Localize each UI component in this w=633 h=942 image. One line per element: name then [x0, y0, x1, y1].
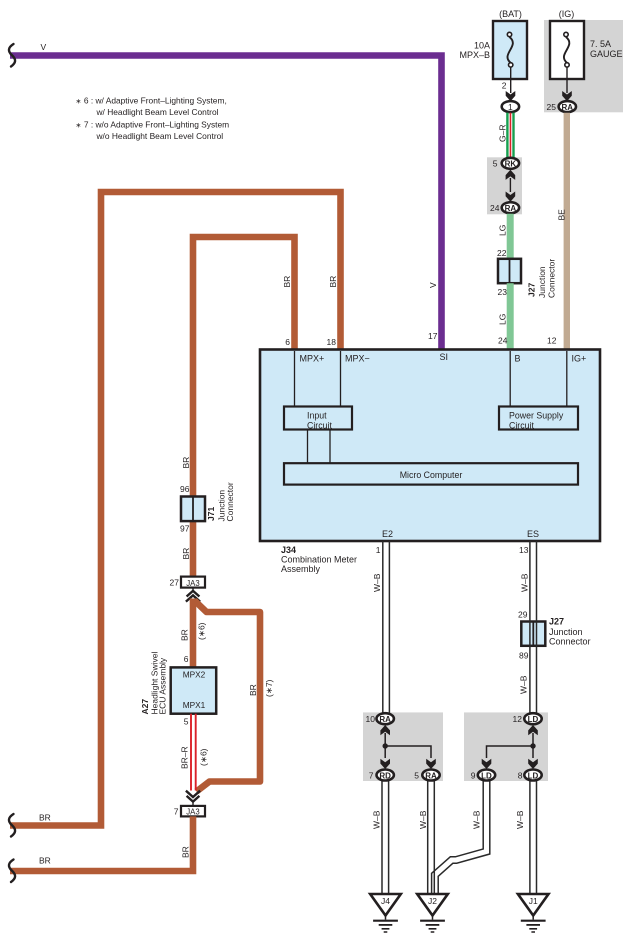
- svg-text:18: 18: [327, 337, 337, 347]
- junction dot left: [383, 743, 388, 748]
- link line arrow to junction dot right: [532, 733, 534, 746]
- svg-text:Input: Input: [307, 411, 327, 421]
- svg-text:ECU Assembly: ECU Assembly: [158, 657, 168, 714]
- wire W-B from LD 9 with jog joining ground J2: [435, 781, 487, 894]
- Micro Computer block: [284, 463, 578, 484]
- svg-text:RA: RA: [505, 204, 517, 213]
- svg-text:27: 27: [170, 578, 180, 588]
- ground J2: [417, 894, 448, 932]
- off-page squiggle BR upper exit: [9, 814, 15, 837]
- svg-text:8: 8: [518, 770, 523, 780]
- svg-text:6: 6: [285, 337, 290, 347]
- svg-text:BE: BE: [557, 209, 567, 221]
- junction dot right: [530, 743, 535, 748]
- connector oval RA pin 5: [422, 770, 439, 781]
- svg-text:12: 12: [513, 714, 523, 724]
- connector oval 1: [502, 101, 519, 112]
- svg-text:RK: RK: [505, 160, 517, 169]
- svg-text:J2: J2: [428, 896, 437, 906]
- internal wire MPX- to Input Circuit: [340, 351, 342, 407]
- svg-text:Junction: Junction: [549, 627, 583, 637]
- svg-text:Connector: Connector: [225, 482, 235, 521]
- svg-text:(BAT): (BAT): [499, 9, 522, 19]
- svg-text:5: 5: [414, 770, 419, 780]
- ground J1: [518, 894, 549, 932]
- internal wire B to Power Supply Circuit: [509, 351, 511, 407]
- connector arrow into RA 25: [562, 91, 572, 101]
- gray panel behind RK/RA connector pair: [487, 157, 522, 214]
- svg-text:10A: 10A: [474, 41, 490, 51]
- line between RK and RA arrows: [509, 178, 511, 192]
- svg-text:LD: LD: [481, 771, 492, 780]
- wire W-B from E2 pin 1 to RA 10: [383, 541, 390, 713]
- svg-text:BR–R: BR–R: [180, 746, 190, 769]
- connector oval RA pin 24: [502, 202, 519, 213]
- svg-text:W–B: W–B: [372, 810, 382, 829]
- svg-text:W–B: W–B: [472, 810, 482, 829]
- svg-text:J34: J34: [281, 545, 296, 555]
- svg-text:22: 22: [497, 248, 507, 258]
- arrow down into LD 9: [482, 759, 492, 769]
- gray panel bottom-right (LD connectors): [464, 712, 548, 781]
- wire W-B from RA 5 to ground J2: [428, 781, 435, 894]
- stub from JA3 27 to chevron: [192, 588, 194, 592]
- gray panel behind IG fuse: [544, 20, 623, 112]
- svg-text:(∗7): (∗7): [264, 679, 274, 697]
- connector oval LD pin 8: [524, 770, 541, 781]
- svg-text:BR: BR: [39, 813, 51, 823]
- off-page squiggle for V wire: [9, 44, 15, 67]
- svg-text:MPX2: MPX2: [183, 669, 206, 679]
- connector oval RK pin 5: [502, 158, 519, 169]
- svg-text:V: V: [41, 42, 47, 52]
- fuse 7.5A GAUGE: [550, 21, 584, 79]
- svg-text:96: 96: [180, 484, 190, 494]
- wire BR from J71 to JA3 pin 27: [190, 521, 197, 577]
- connector JA3 pin 27: [181, 577, 205, 588]
- svg-text:W–B: W–B: [418, 810, 428, 829]
- fuse 10A MPX-B: [493, 21, 527, 79]
- svg-text:Power Supply: Power Supply: [509, 411, 564, 421]
- svg-text:MPX–B: MPX–B: [459, 50, 490, 60]
- junction connector J27 (top): [498, 259, 521, 283]
- gray panel bottom-left (RA/RD/RA connectors): [363, 712, 443, 781]
- svg-text:5: 5: [493, 159, 498, 169]
- svg-text:24: 24: [498, 336, 508, 346]
- internal wire MPX+ to Input Circuit: [294, 351, 296, 407]
- svg-text:Connector: Connector: [547, 259, 557, 298]
- svg-text:Micro Computer: Micro Computer: [400, 470, 463, 480]
- svg-text:W–B: W–B: [520, 573, 530, 592]
- svg-text:Circuit: Circuit: [509, 420, 534, 430]
- svg-text:1: 1: [376, 545, 381, 555]
- svg-text:MPX1: MPX1: [183, 700, 206, 710]
- svg-text:13: 13: [519, 545, 529, 555]
- svg-text:7: 7: [174, 807, 179, 817]
- svg-text:BR: BR: [181, 846, 191, 858]
- svg-text:29: 29: [518, 610, 528, 620]
- double chevron pointing down above JA3 7: [186, 791, 200, 802]
- svg-text:Assembly: Assembly: [281, 564, 321, 574]
- svg-text:Connector: Connector: [549, 637, 591, 647]
- wire BR inner: J71 up and over to MPX+ pin 6: [193, 237, 295, 497]
- svg-text:24: 24: [490, 203, 500, 213]
- svg-text:97: 97: [180, 524, 190, 534]
- svg-text:∗ 6 : w/ Adaptive Front–Lighti: ∗ 6 : w/ Adaptive Front–Lighting System,: [76, 96, 227, 106]
- svg-text:10: 10: [366, 714, 376, 724]
- ECU A27 Headlight Swivel ECU Assembly box: [171, 667, 217, 713]
- connector oval RA pin 10: [377, 713, 394, 724]
- svg-text:Junction: Junction: [537, 266, 547, 298]
- connector oval LD pin 12: [524, 713, 541, 724]
- wire LG from J27 to B pin 24: [507, 283, 514, 350]
- svg-text:(IG): (IG): [559, 9, 575, 19]
- wire W-B from RD 7 to ground J4: [382, 781, 389, 894]
- svg-text:BR: BR: [181, 548, 191, 560]
- svg-text:BR: BR: [181, 457, 191, 469]
- svg-text:GAUGE: GAUGE: [590, 49, 623, 59]
- svg-text:J27: J27: [549, 617, 564, 627]
- svg-text:A27: A27: [140, 699, 150, 715]
- arrow up into RA 10: [380, 725, 390, 735]
- svg-text:∗ 7 : w/o Adaptive Front–Light: ∗ 7 : w/o Adaptive Front–Lighting System: [76, 120, 230, 130]
- svg-text:(∗6): (∗6): [199, 748, 209, 766]
- svg-text:MPX+: MPX+: [300, 354, 325, 364]
- arrow down into RD 7: [380, 759, 390, 769]
- ground J4: [370, 894, 401, 932]
- svg-text:JA3: JA3: [186, 579, 199, 588]
- double chevron (harness splice) pointing up below JA3 27: [186, 591, 200, 602]
- wire W-B from ES pin 13 through J27 to LD 12: [530, 541, 537, 713]
- svg-text:J27: J27: [527, 283, 537, 297]
- svg-text:23: 23: [498, 287, 508, 297]
- wire W-B from LD 8 to ground J1: [530, 781, 537, 894]
- svg-text:V: V: [428, 282, 438, 288]
- svg-text:MPX−: MPX−: [345, 354, 370, 364]
- branch wire to RA 5: [385, 746, 431, 758]
- svg-text:7. 5A: 7. 5A: [590, 39, 611, 49]
- svg-text:W–B: W–B: [372, 573, 382, 592]
- internal wires Input Circuit to Micro Computer: [307, 430, 309, 464]
- lead from fuse to pin 2 arrow: [510, 67, 512, 93]
- Power Supply Circuit block: [499, 407, 578, 431]
- svg-text:J71: J71: [206, 507, 216, 521]
- svg-text:E2: E2: [382, 529, 393, 539]
- svg-text:BR: BR: [248, 684, 258, 696]
- Input Circuit block: [284, 407, 352, 431]
- junction connector J27 (bottom): [521, 622, 545, 646]
- branch wire down to LD 8: [532, 746, 534, 758]
- svg-text:89: 89: [519, 651, 529, 661]
- wire BR (*6) from chevron to A27 MPX2 pin 6, with (*7) branch loop to JA3 pin 7: [190, 599, 197, 668]
- connector oval RD pin 7: [377, 770, 394, 781]
- svg-text:5: 5: [184, 717, 189, 727]
- svg-text:RA: RA: [379, 715, 391, 724]
- svg-text:17: 17: [428, 331, 438, 341]
- svg-text:IG+: IG+: [572, 354, 587, 364]
- svg-text:6: 6: [184, 654, 189, 664]
- svg-text:7: 7: [369, 770, 374, 780]
- lead from IG fuse to arrow: [566, 67, 568, 93]
- wire LG from RA to J27: [507, 214, 514, 259]
- svg-text:BR: BR: [39, 856, 51, 866]
- connector oval LD pin 9: [478, 770, 495, 781]
- wire BR-R from MPX1 pin 5 to JA3 pin 7 chevron: [191, 714, 196, 791]
- svg-text:LG: LG: [498, 314, 508, 325]
- svg-text:RA: RA: [562, 103, 574, 112]
- svg-text:2: 2: [502, 81, 507, 91]
- svg-text:Combination Meter: Combination Meter: [281, 555, 357, 565]
- svg-text:Circuit: Circuit: [307, 420, 332, 430]
- svg-text:LG: LG: [498, 225, 508, 236]
- wire BR from JA3 7 to off-page lower-left: [10, 816, 193, 871]
- svg-text:9: 9: [471, 770, 476, 780]
- link line arrow to junction dot: [384, 733, 386, 746]
- off-page squiggle BR lower exit: [9, 860, 15, 883]
- connector JA3 pin 7: [181, 806, 205, 817]
- svg-text:JA3: JA3: [186, 808, 199, 817]
- svg-text:W–B: W–B: [515, 810, 525, 829]
- svg-text:J4: J4: [381, 896, 390, 906]
- arrow down into RA 5: [426, 759, 436, 769]
- wire G-R (green-red) from oval 1 to RK: [507, 113, 513, 158]
- svg-text:W–B: W–B: [519, 675, 529, 694]
- wire BE from RA 25 to IG+ pin 12: [564, 113, 570, 350]
- arrow up into LD 12: [528, 725, 538, 735]
- svg-text:25: 25: [547, 102, 557, 112]
- connector oval RA pin 25: [559, 101, 576, 112]
- svg-text:BR: BR: [180, 629, 190, 641]
- svg-text:12: 12: [547, 336, 557, 346]
- wire BR outer trunk: off-page to MPX- pin 18: [10, 192, 341, 826]
- stub to JA3 7: [192, 801, 194, 806]
- svg-text:ES: ES: [527, 529, 539, 539]
- internal wire IG+ to Power Supply Circuit: [566, 351, 568, 407]
- arrow up into RK: [506, 170, 516, 180]
- svg-text:w/ Headlight Beam Level Contro: w/ Headlight Beam Level Control: [96, 107, 219, 117]
- svg-text:RA: RA: [425, 771, 437, 780]
- svg-text:w/o Headlight Beam Level Contr: w/o Headlight Beam Level Control: [96, 131, 224, 141]
- svg-text:G–R: G–R: [498, 125, 508, 142]
- branch wire to LD 9: [487, 746, 534, 758]
- arrow down into LD 8: [528, 759, 538, 769]
- svg-text:LD: LD: [528, 715, 539, 724]
- svg-text:J1: J1: [529, 896, 538, 906]
- svg-text:LD: LD: [528, 771, 539, 780]
- svg-text:BR: BR: [282, 276, 292, 288]
- connector arrow into oval 1: [506, 91, 516, 101]
- svg-text:1: 1: [508, 102, 513, 112]
- junction connector J71: [181, 497, 205, 522]
- svg-text:BR: BR: [328, 276, 338, 288]
- ECU J34 Combination Meter Assembly box: [260, 350, 600, 542]
- svg-text:(∗6): (∗6): [197, 622, 207, 640]
- svg-text:SI: SI: [440, 352, 449, 362]
- svg-text:RD: RD: [379, 771, 391, 780]
- svg-text:B: B: [515, 354, 521, 364]
- arrow down into RA: [506, 192, 516, 202]
- branch wire down to RD 7: [384, 746, 386, 758]
- wire V (violet) from off-page to SI pin 17: [10, 56, 442, 351]
